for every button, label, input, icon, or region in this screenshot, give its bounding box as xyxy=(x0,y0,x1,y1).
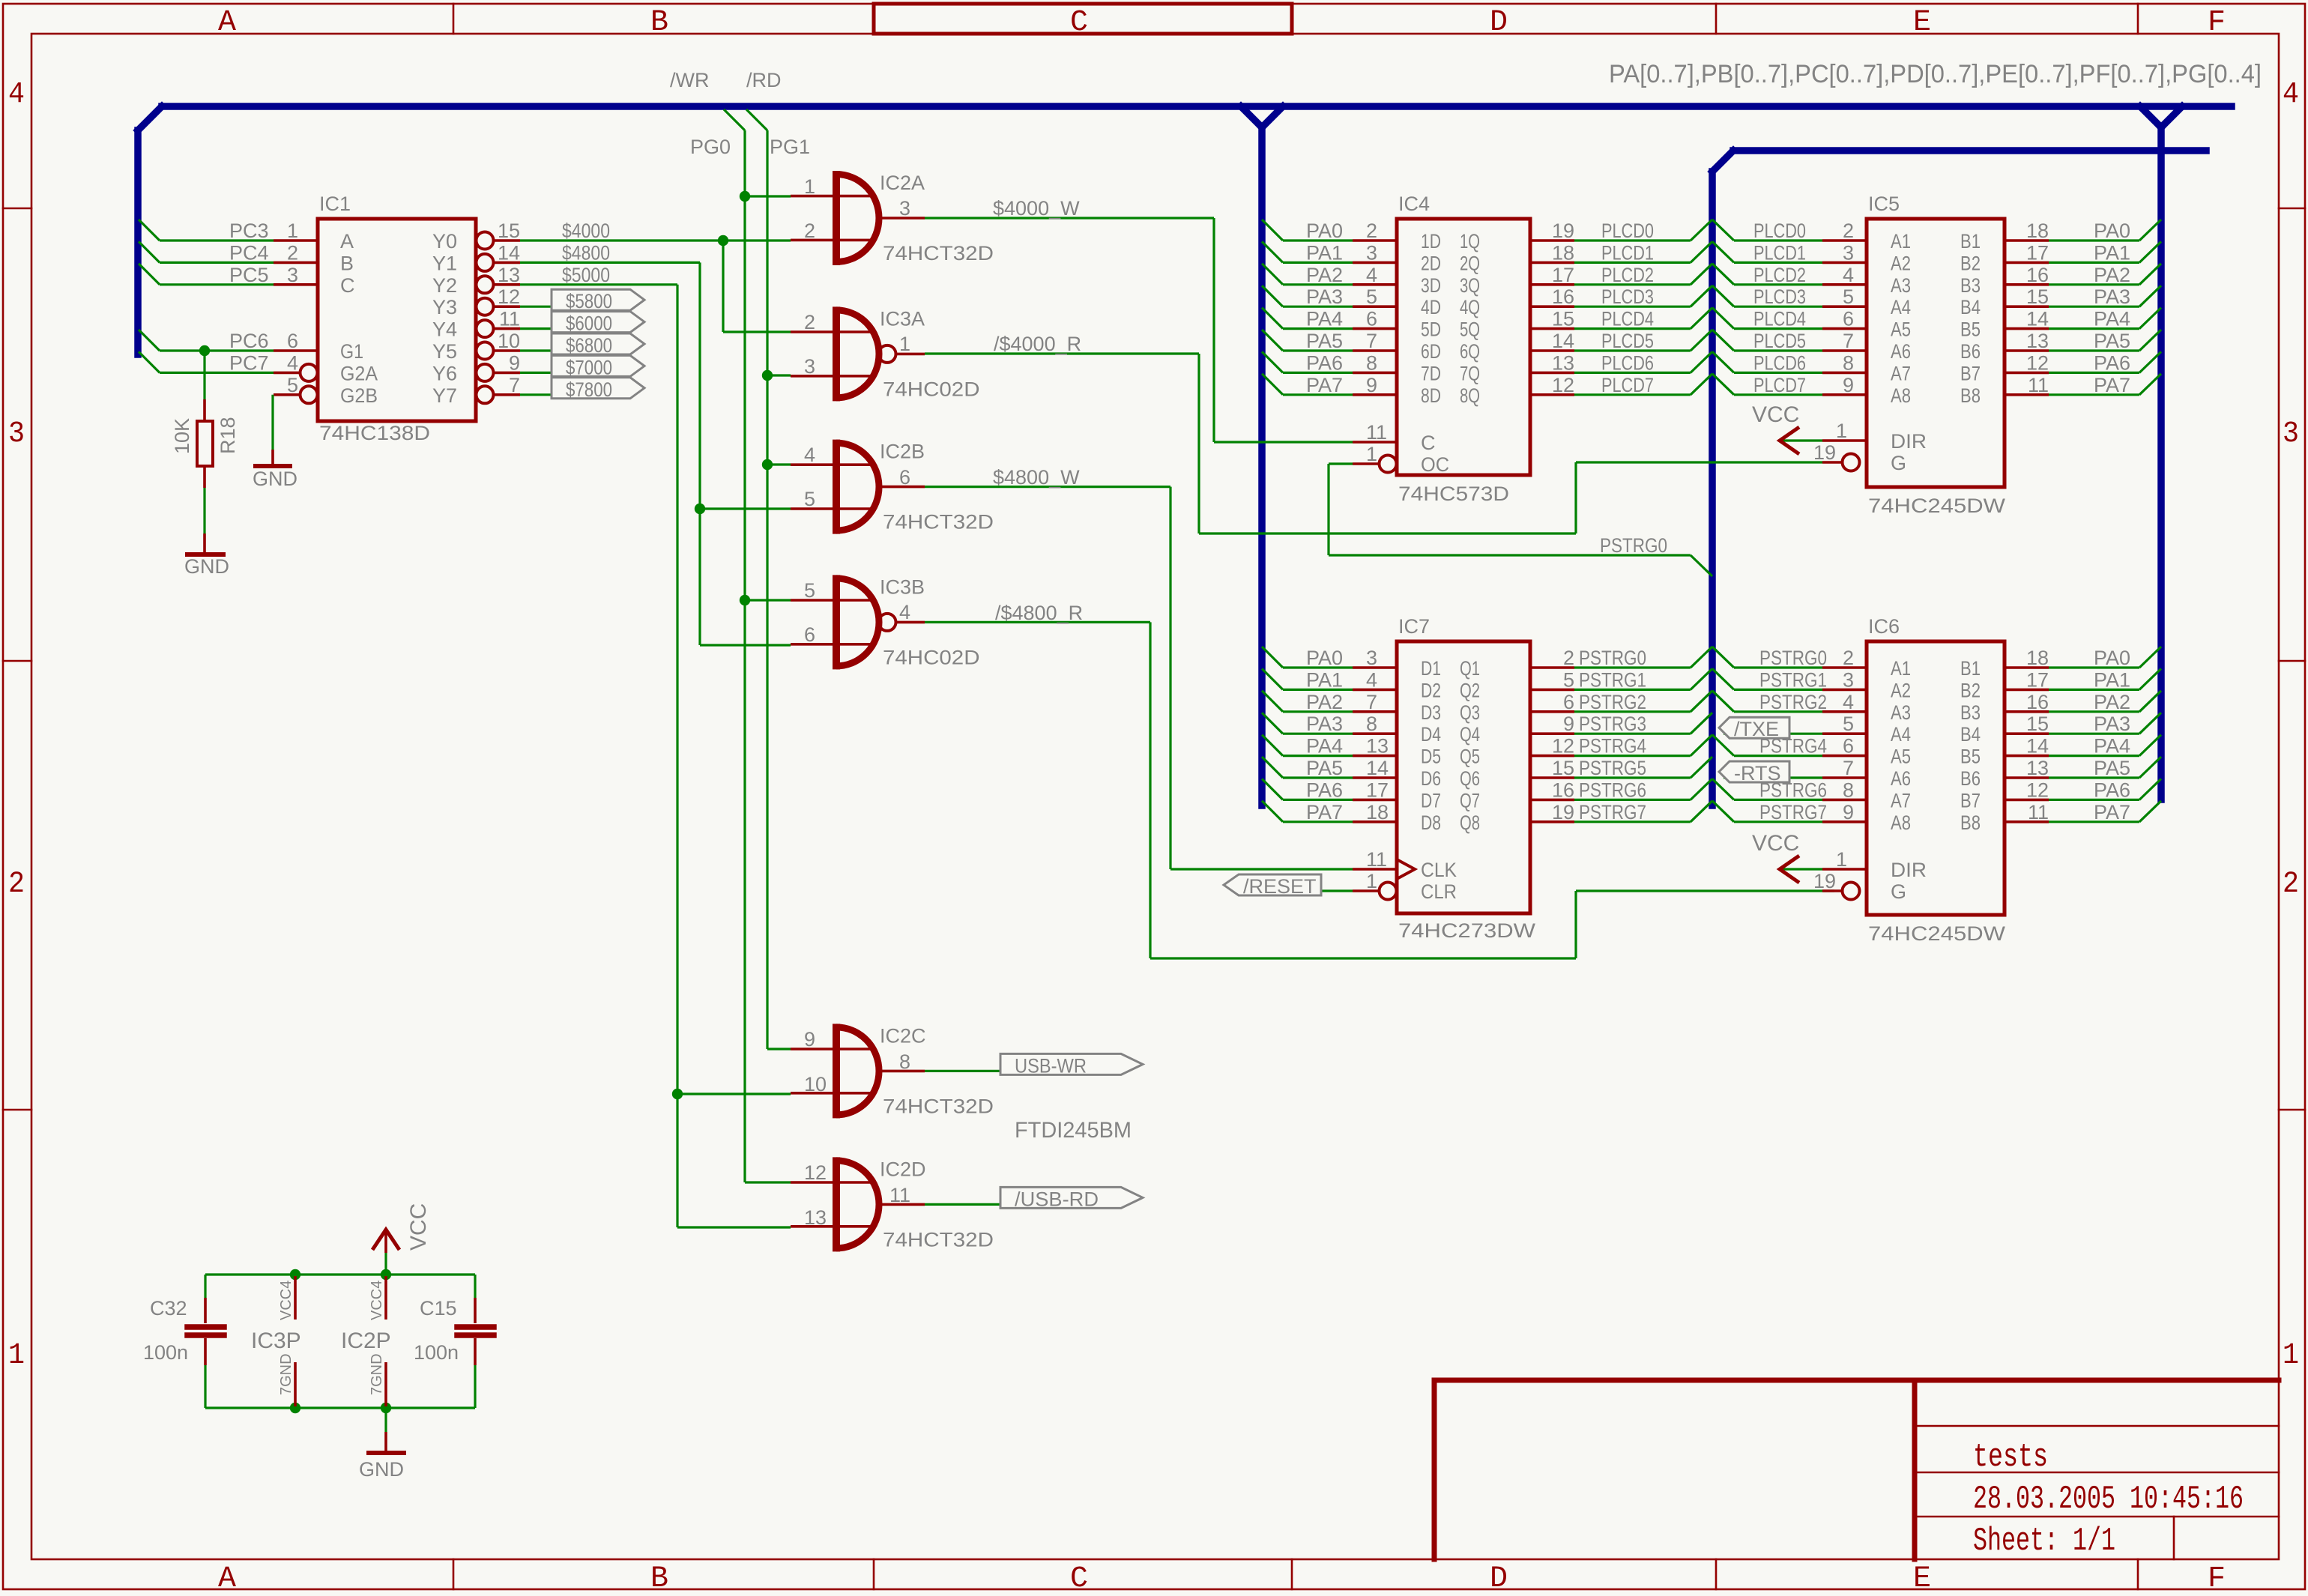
junction VCC rail / IC2P xyxy=(381,1269,391,1280)
svg-text:12: 12 xyxy=(1552,735,1574,758)
svg-text:PSTRG2: PSTRG2 xyxy=(1579,691,1646,713)
pin 4 3D of IC4 xyxy=(1353,283,1397,286)
svg-text:2Q: 2Q xyxy=(1460,252,1480,274)
svg-text:17: 17 xyxy=(2026,668,2049,691)
svg-text:PLCD6: PLCD6 xyxy=(1753,351,1806,374)
svg-text:IC2B: IC2B xyxy=(880,441,925,463)
wire PSTRG7 IC7 to bus xyxy=(1574,820,1691,823)
svg-text:PA7: PA7 xyxy=(2094,374,2130,396)
svg-text:A2: A2 xyxy=(1891,679,1911,701)
pin 16 B3 of IC5 xyxy=(2005,283,2049,286)
svg-text:VCC: VCC xyxy=(1752,402,1799,427)
svg-text:A4: A4 xyxy=(1891,723,1911,746)
svg-text:PC3: PC3 xyxy=(229,220,269,242)
pin 16 4Q of IC4 xyxy=(1530,305,1574,308)
svg-text:CLK: CLK xyxy=(1421,859,1457,881)
frame C-cell highlight xyxy=(874,4,1292,34)
svg-text:PA6: PA6 xyxy=(2094,351,2130,374)
svg-text:PA4: PA4 xyxy=(2094,735,2130,758)
svg-text:PA7: PA7 xyxy=(1306,801,1343,823)
svg-text:A: A xyxy=(218,1562,236,1596)
pin 19 1Q of IC4 xyxy=(1530,239,1574,242)
svg-text:2D: 2D xyxy=(1421,252,1441,274)
pin 6 A5 of IC5 xyxy=(1822,327,1867,330)
pin 3 A2 of IC6 xyxy=(1822,689,1867,692)
wire PA4 bus to IC7 D5 xyxy=(1262,735,1283,756)
svg-text:IC4: IC4 xyxy=(1398,193,1430,215)
junction $4000 xyxy=(718,235,728,246)
wire PLCD6 bus to IC5 xyxy=(1712,351,1734,372)
svg-text:PLCD7: PLCD7 xyxy=(1601,374,1654,396)
wire /RD to IC3A pin3 xyxy=(767,374,791,376)
svg-text:tests: tests xyxy=(1973,1439,2048,1476)
wire PA0 bus to IC4 1D xyxy=(1262,220,1283,241)
svg-text:2: 2 xyxy=(804,220,815,242)
svg-text:2: 2 xyxy=(8,868,25,901)
pin 6 Q3 of IC7 xyxy=(1530,710,1574,713)
svg-text:PLCD3: PLCD3 xyxy=(1753,285,1806,308)
svg-text:8: 8 xyxy=(1843,779,1854,801)
pin 1 A of IC1 xyxy=(274,239,318,242)
svg-text:VCC: VCC xyxy=(406,1203,431,1251)
svg-text:PLCD0: PLCD0 xyxy=(1753,220,1806,242)
svg-text:/RD: /RD xyxy=(746,69,782,91)
pin 15 B4 of IC5 xyxy=(2005,305,2049,308)
svg-text:PA2: PA2 xyxy=(1306,691,1343,713)
flag USB-WR xyxy=(1000,1054,1143,1074)
flag $6000 xyxy=(552,312,644,333)
wire /RD vertical xyxy=(766,130,768,1049)
svg-text:B4: B4 xyxy=(1960,723,1981,746)
junction GND rail / IC2P xyxy=(381,1403,391,1413)
svg-text:C: C xyxy=(1421,432,1436,454)
svg-text:14: 14 xyxy=(2026,308,2049,330)
svg-text:IC3P: IC3P xyxy=(251,1329,301,1353)
bus: Y-split to vertical bus at x=1684 xyxy=(1241,106,1262,127)
pin 1 DIR of IC6 xyxy=(1822,868,1867,871)
svg-text:9: 9 xyxy=(1843,374,1854,396)
wire $4800 to IC2B pin5 xyxy=(700,507,791,510)
svg-text:PA6: PA6 xyxy=(2094,779,2130,801)
pin 9 Y6 of IC1 xyxy=(477,364,494,381)
svg-text:8: 8 xyxy=(1843,351,1854,374)
wire /$4800_R from IC3B to IC6 G xyxy=(925,621,1150,623)
pin 18 2Q of IC4 xyxy=(1530,262,1574,265)
bus: left corner down to PC taps xyxy=(138,106,162,130)
svg-text:74HCT32D: 74HCT32D xyxy=(883,242,994,265)
wire PA4 IC6 to right bus xyxy=(2049,755,2139,757)
svg-text:B4: B4 xyxy=(1960,296,1981,318)
svg-text:PA3: PA3 xyxy=(1306,285,1343,308)
wire PA6 bus to IC4 7D xyxy=(1262,351,1283,372)
pin 5 G2B of IC1 xyxy=(274,393,300,396)
svg-text:16: 16 xyxy=(1552,779,1574,801)
svg-text:18: 18 xyxy=(1552,241,1574,264)
svg-text:C32: C32 xyxy=(150,1297,187,1320)
svg-text:6: 6 xyxy=(899,466,910,489)
wire PA0 IC6 to right bus xyxy=(2049,666,2139,668)
wire /WR to IC2A pin1 xyxy=(745,195,791,197)
svg-text:PG1: PG1 xyxy=(770,136,810,158)
svg-text:PC5: PC5 xyxy=(229,264,269,286)
svg-text:2: 2 xyxy=(1563,647,1574,669)
ground symbol below caps xyxy=(384,1408,387,1432)
svg-text:Q7: Q7 xyxy=(1460,789,1480,811)
pin 19 G of IC6 xyxy=(1822,889,1843,892)
pin 5 Q2 of IC7 xyxy=(1530,689,1574,692)
svg-text:PA1: PA1 xyxy=(2094,241,2130,264)
svg-text:G: G xyxy=(1891,880,1906,903)
svg-text:7Q: 7Q xyxy=(1460,362,1480,384)
svg-text:A1: A1 xyxy=(1891,657,1911,680)
svg-text:7: 7 xyxy=(1366,330,1377,352)
svg-text:USB-WR: USB-WR xyxy=(1015,1054,1087,1077)
pin 13 Y2 of IC1 xyxy=(477,276,494,293)
svg-text:Y4: Y4 xyxy=(432,318,457,341)
pin 18 D8 of IC7 xyxy=(1353,820,1397,823)
wire PA1 bus to IC7 D2 xyxy=(1262,668,1283,689)
pin 18 B1 of IC5 xyxy=(2005,239,2049,242)
svg-text:PSTRG7: PSTRG7 xyxy=(1579,801,1646,823)
flag /RESET at IC7 CLR xyxy=(1320,889,1353,892)
wire PLCD4 IC4 to bus xyxy=(1574,327,1691,330)
svg-text:7: 7 xyxy=(1843,757,1854,779)
flag /TXE xyxy=(1719,717,1789,738)
svg-text:15: 15 xyxy=(498,220,520,242)
svg-text:1: 1 xyxy=(804,175,815,198)
wire $4000 branch to IC3A pin2 xyxy=(722,241,724,332)
svg-text:PLCD1: PLCD1 xyxy=(1601,241,1654,264)
op IC4 74HC573D latch xyxy=(1397,219,1530,475)
svg-text:PLCD4: PLCD4 xyxy=(1601,308,1654,330)
svg-text:B1: B1 xyxy=(1960,657,1981,680)
svg-text:PA3: PA3 xyxy=(1306,713,1343,735)
svg-text:A1: A1 xyxy=(1891,230,1911,253)
gate IC2C 74HCT32D xyxy=(791,1048,871,1051)
svg-text:11: 11 xyxy=(1366,421,1387,444)
svg-text:A8: A8 xyxy=(1891,384,1911,407)
wire PA2 IC5 to right bus xyxy=(2049,283,2139,285)
title block rows xyxy=(1915,1425,2279,1427)
svg-text:IC2C: IC2C xyxy=(880,1024,926,1047)
svg-text:PSTRG0: PSTRG0 xyxy=(1600,534,1667,557)
svg-text:8: 8 xyxy=(1366,713,1377,735)
wire PSTRG0 from IC4 OC to bus xyxy=(1329,462,1353,465)
svg-text:$4800: $4800 xyxy=(562,241,610,264)
svg-text:B2: B2 xyxy=(1960,252,1981,274)
svg-text:4: 4 xyxy=(1843,691,1854,713)
svg-text:PA0: PA0 xyxy=(2094,220,2130,242)
wire PLCD7 IC4 to bus xyxy=(1574,393,1691,396)
wire /RD to IC2B pin4 xyxy=(767,463,791,465)
svg-text:VCC4: VCC4 xyxy=(278,1281,294,1320)
pin 14 B5 of IC5 xyxy=(2005,327,2049,330)
svg-text:PLCD1: PLCD1 xyxy=(1753,241,1806,264)
svg-text:/USB-RD: /USB-RD xyxy=(1015,1188,1099,1210)
flag $7000 xyxy=(552,355,644,376)
svg-text:PSTRG2: PSTRG2 xyxy=(1759,691,1827,713)
wire /RD to IC2C pin9 xyxy=(767,1048,791,1050)
svg-text:A: A xyxy=(340,230,354,253)
pin 15 B4 of IC6 xyxy=(2005,732,2049,735)
svg-text:74HCT32D: 74HCT32D xyxy=(883,1095,994,1117)
svg-text:4: 4 xyxy=(287,351,298,374)
pin 4 A3 of IC6 xyxy=(1822,710,1867,713)
svg-text:14: 14 xyxy=(498,241,520,264)
svg-text:1D: 1D xyxy=(1421,230,1441,253)
power symbol IC3P xyxy=(294,1276,297,1320)
svg-text:PA1: PA1 xyxy=(1306,668,1343,691)
svg-text:14: 14 xyxy=(1552,330,1574,352)
svg-text:11: 11 xyxy=(889,1184,910,1206)
wire /TXE to IC6 A4 xyxy=(1724,733,1822,735)
wire PA6 bus to IC7 D7 xyxy=(1262,779,1283,799)
wire $4800 from Y1 xyxy=(520,262,700,264)
junction /WR-IC2A xyxy=(740,191,750,202)
svg-text:PLCD2: PLCD2 xyxy=(1753,264,1806,286)
svg-text:PA6: PA6 xyxy=(1306,779,1343,801)
pin 13 B6 of IC5 xyxy=(2005,349,2049,352)
pin 19 G of IC5 xyxy=(1822,461,1843,464)
wire $5000 to IC2D pin13 xyxy=(677,1226,791,1228)
junction /RD-IC3A xyxy=(762,370,773,381)
svg-text:7D: 7D xyxy=(1421,362,1441,384)
svg-text:B3: B3 xyxy=(1960,274,1981,297)
svg-text:6: 6 xyxy=(804,623,815,646)
wire /USB-RD from IC2D xyxy=(925,1203,1001,1206)
svg-text:PA4: PA4 xyxy=(2094,308,2130,330)
svg-text:3: 3 xyxy=(899,197,910,220)
wire PA0 IC5 to right bus xyxy=(2049,239,2139,241)
pin 4 G2A of IC1 xyxy=(274,372,300,375)
svg-text:PA7: PA7 xyxy=(2094,801,2130,823)
svg-text:6: 6 xyxy=(1563,691,1574,713)
pin 11 CLK of IC7 xyxy=(1353,868,1397,871)
svg-text:74HC273DW: 74HC273DW xyxy=(1398,919,1536,942)
wire /WR to IC3B pin5 xyxy=(745,599,791,601)
svg-text:D8: D8 xyxy=(1421,811,1441,834)
svg-text:1: 1 xyxy=(1836,848,1847,871)
pin 3 A2 of IC5 xyxy=(1822,262,1867,265)
svg-text:2: 2 xyxy=(2283,868,2299,901)
svg-text:12: 12 xyxy=(1552,374,1574,396)
svg-text:1Q: 1Q xyxy=(1460,230,1480,253)
wire PLCD5 bus to IC5 xyxy=(1712,330,1734,351)
wire PSTRG3 IC7 to bus xyxy=(1574,733,1691,735)
wire PLCD1 IC4 to bus xyxy=(1574,262,1691,264)
wire PLCD0 bus to IC5 xyxy=(1712,220,1734,241)
wire PLCD1 bus to IC5 xyxy=(1712,241,1734,262)
wire PLCD3 bus to IC5 xyxy=(1712,285,1734,306)
svg-text:PA5: PA5 xyxy=(2094,757,2130,779)
pin 13 B6 of IC6 xyxy=(2005,776,2049,779)
pin 6 G1 of IC1 xyxy=(274,349,318,352)
wire PLCD6 IC4 to bus xyxy=(1574,372,1691,374)
pin 13 7Q of IC4 xyxy=(1530,372,1574,375)
gate IC2A 74HCT32D xyxy=(791,195,871,198)
capacitor C32 100n xyxy=(204,1275,206,1298)
svg-text:FTDI245BM: FTDI245BM xyxy=(1015,1118,1132,1143)
svg-text:14: 14 xyxy=(1366,757,1389,779)
svg-text:PG0: PG0 xyxy=(690,136,731,158)
junction /RD-IC2B xyxy=(762,459,773,470)
svg-text:PSTRG7: PSTRG7 xyxy=(1759,801,1827,823)
svg-text:D3: D3 xyxy=(1421,701,1441,724)
gate IC2D 74HCT32D xyxy=(791,1181,871,1184)
wire PA5 IC6 to right bus xyxy=(2049,776,2139,779)
pin 1 DIR of IC5 xyxy=(1822,439,1867,442)
svg-text:PLCD0: PLCD0 xyxy=(1601,220,1654,242)
svg-text:OC: OC xyxy=(1421,453,1449,476)
svg-text:DIR: DIR xyxy=(1891,430,1927,453)
pin 3 D1 of IC7 xyxy=(1353,666,1397,669)
junction VCC rail / IC3P xyxy=(290,1269,300,1280)
pin 17 3Q of IC4 xyxy=(1530,283,1574,286)
wire $4000 from Y0 to IC2A xyxy=(520,239,791,241)
svg-text:4: 4 xyxy=(804,444,815,466)
wire PLCD3 IC4 to bus xyxy=(1574,306,1691,308)
svg-text:PLCD5: PLCD5 xyxy=(1753,330,1806,352)
svg-text:GND: GND xyxy=(359,1458,404,1481)
svg-text:$4000: $4000 xyxy=(562,220,610,242)
flag $6800 xyxy=(552,333,644,354)
svg-text:6: 6 xyxy=(1843,735,1854,758)
svg-text:5: 5 xyxy=(804,488,815,510)
pin 1 CLR of IC7 xyxy=(1353,889,1380,892)
svg-text:16: 16 xyxy=(2026,691,2049,713)
pin 17 B2 of IC5 xyxy=(2005,262,2049,265)
pin 6 A5 of IC6 xyxy=(1822,755,1867,758)
svg-text:5D: 5D xyxy=(1421,318,1441,341)
wire PLCD5 IC4 to bus xyxy=(1574,349,1691,351)
pin 15 Q6 of IC7 xyxy=(1530,776,1574,779)
svg-text:PA6: PA6 xyxy=(1306,351,1343,374)
svg-text:B6: B6 xyxy=(1960,340,1981,363)
wire PSTRG2 IC7 to bus xyxy=(1574,710,1691,713)
ground at IC1 G2B xyxy=(271,450,274,465)
pin 8 A7 of IC5 xyxy=(1822,372,1867,375)
supply VCC arrow at IC6 DIR xyxy=(1781,868,1822,870)
svg-text:PA4: PA4 xyxy=(1306,308,1343,330)
op IC6 74HC245DW xyxy=(1867,641,2005,915)
svg-text:GND: GND xyxy=(184,555,229,578)
svg-text:PC6: PC6 xyxy=(229,330,269,352)
flag -RTS xyxy=(1719,761,1789,782)
svg-text:VCC4: VCC4 xyxy=(369,1281,385,1320)
pin 11 B8 of IC6 xyxy=(2005,820,2049,823)
svg-text:12: 12 xyxy=(2026,779,2049,801)
resistor R18 10K xyxy=(203,351,205,399)
wire $6000 from Y4 xyxy=(520,327,555,330)
wire PSTRG0 IC7 to bus xyxy=(1574,666,1691,668)
svg-text:18: 18 xyxy=(2026,647,2049,669)
flag $7800 xyxy=(552,378,644,399)
pin 4 D2 of IC7 xyxy=(1353,689,1397,692)
svg-text:A7: A7 xyxy=(1891,789,1911,811)
svg-text:PA4: PA4 xyxy=(1306,735,1343,758)
svg-text:$4000_W: $4000_W xyxy=(993,197,1080,220)
svg-text:1: 1 xyxy=(8,1339,25,1373)
wire GND rail bottom xyxy=(205,1406,475,1409)
svg-text:3: 3 xyxy=(2283,417,2299,451)
wire PLCD7 bus to IC5 xyxy=(1712,374,1734,395)
svg-text:PA3: PA3 xyxy=(2094,713,2130,735)
wire PA2 bus to IC7 D3 xyxy=(1262,691,1283,712)
op IC7 74HC273DW register xyxy=(1397,641,1530,913)
svg-text:/WR: /WR xyxy=(670,69,709,91)
pin 4 A3 of IC5 xyxy=(1822,283,1867,286)
svg-text:18: 18 xyxy=(1366,801,1389,823)
wire /WR vertical xyxy=(743,130,746,1182)
wire PA4 IC5 to right bus xyxy=(2049,327,2139,330)
svg-text:6: 6 xyxy=(1366,308,1377,330)
svg-text:Y2: Y2 xyxy=(432,274,457,297)
svg-text:D6: D6 xyxy=(1421,767,1441,790)
wire PA3 IC5 to right bus xyxy=(2049,306,2139,308)
supply VCC arrow at IC5 DIR xyxy=(1781,439,1822,441)
svg-text:Y6: Y6 xyxy=(432,362,457,384)
svg-text:B1: B1 xyxy=(1960,230,1981,253)
svg-text:PSTRG6: PSTRG6 xyxy=(1759,779,1827,801)
svg-text:Y5: Y5 xyxy=(432,340,457,363)
svg-text:VCC: VCC xyxy=(1752,831,1799,856)
svg-text:$7000: $7000 xyxy=(566,356,612,378)
svg-text:9: 9 xyxy=(1563,713,1574,735)
wire PA4 bus to IC4 5D xyxy=(1262,308,1283,329)
pin 5 A4 of IC6 xyxy=(1822,732,1867,735)
svg-text:11: 11 xyxy=(499,308,520,330)
svg-text:G2A: G2A xyxy=(340,362,378,384)
svg-text:PA0: PA0 xyxy=(1306,647,1343,669)
svg-text:12: 12 xyxy=(2026,351,2049,374)
svg-text:PA3: PA3 xyxy=(2094,285,2130,308)
svg-text:9: 9 xyxy=(804,1028,815,1051)
svg-text:IC1: IC1 xyxy=(319,193,351,215)
svg-text:C: C xyxy=(1070,1562,1088,1596)
svg-text:B7: B7 xyxy=(1960,789,1981,811)
wire PSTRG0 bus to IC6 xyxy=(1712,647,1734,668)
svg-text:100n: 100n xyxy=(143,1341,188,1364)
wire PLCD0 IC4 to bus xyxy=(1574,239,1691,241)
svg-text:G1: G1 xyxy=(340,340,363,363)
svg-text:13: 13 xyxy=(2026,757,2049,779)
ground under R18 xyxy=(203,533,206,553)
wire PLCD2 bus to IC5 xyxy=(1712,264,1734,285)
svg-text:2: 2 xyxy=(287,241,298,264)
svg-text:IC2D: IC2D xyxy=(880,1158,926,1180)
svg-text:19: 19 xyxy=(1813,870,1836,892)
svg-text:4: 4 xyxy=(8,78,25,112)
svg-text:4: 4 xyxy=(1843,264,1854,286)
wire PA5 bus to IC4 6D xyxy=(1262,330,1283,351)
pin 12 8Q of IC4 xyxy=(1530,393,1574,396)
svg-text:2: 2 xyxy=(804,311,815,333)
pin 7 D3 of IC7 xyxy=(1353,710,1397,713)
svg-text:2: 2 xyxy=(1366,220,1377,242)
svg-text:1: 1 xyxy=(899,333,910,355)
flag /USB-RD xyxy=(1000,1187,1143,1208)
svg-text:/$4800_R: /$4800_R xyxy=(995,602,1083,624)
svg-text:1: 1 xyxy=(1366,870,1377,892)
flag $5800 xyxy=(552,289,644,310)
svg-text:/RESET: /RESET xyxy=(1243,875,1317,898)
junction $5000-IC2C xyxy=(672,1089,683,1099)
gate IC3B 74HC02D (NOR) xyxy=(791,599,871,602)
svg-text:3D: 3D xyxy=(1421,274,1441,297)
wire PA2 bus to IC4 3D xyxy=(1262,264,1283,285)
svg-text:D: D xyxy=(1490,6,1508,40)
pin 5 A4 of IC5 xyxy=(1822,305,1867,308)
